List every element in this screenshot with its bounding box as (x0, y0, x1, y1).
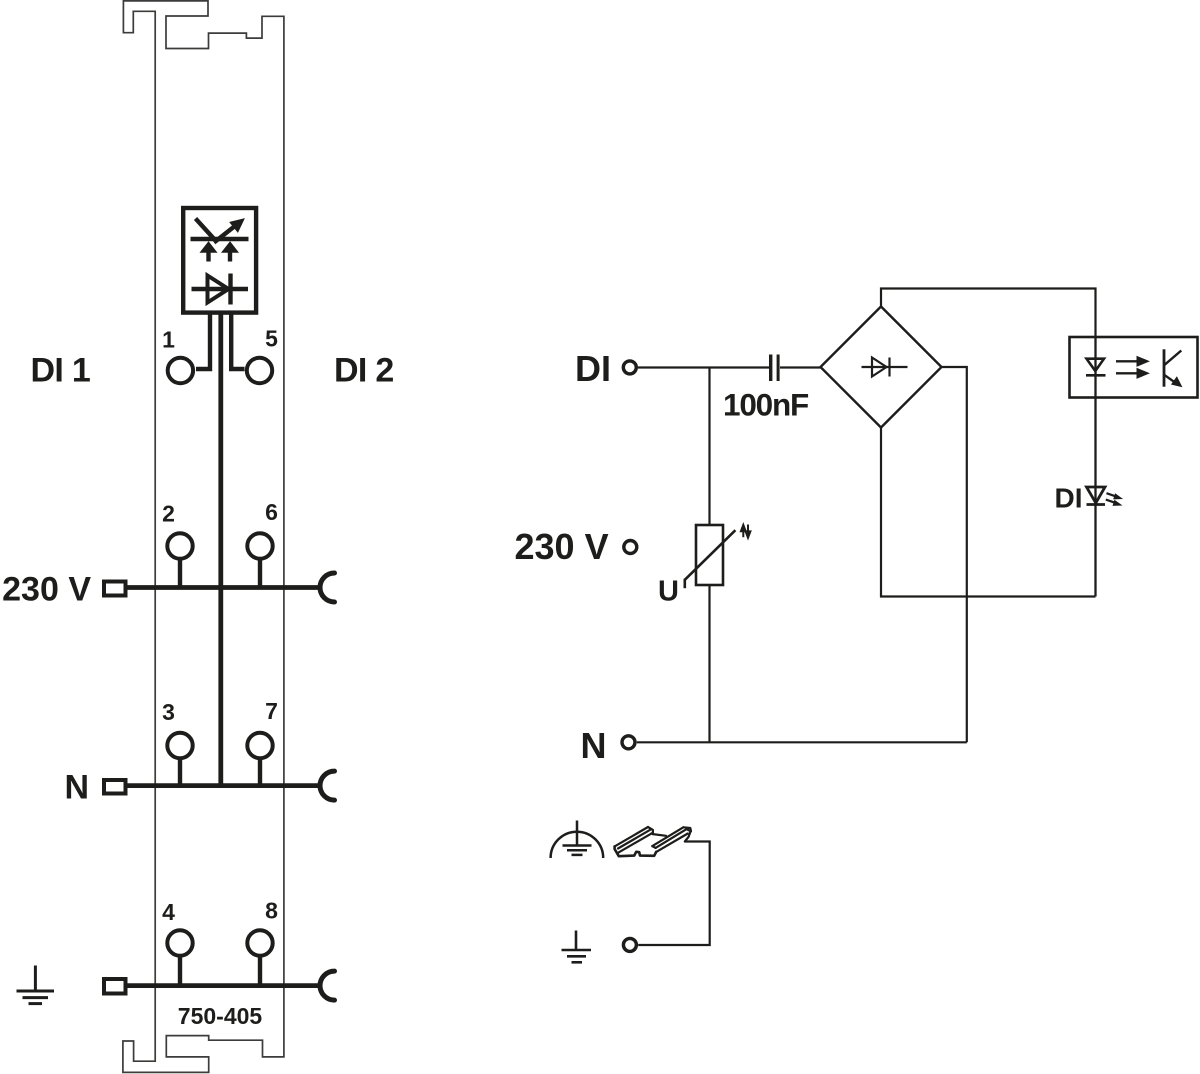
svg-text:DI 1: DI 1 (31, 352, 91, 390)
contact 3 (167, 733, 192, 786)
svg-text:DI: DI (575, 348, 611, 389)
LED indicator box (183, 208, 256, 313)
230V rail (126, 585, 319, 590)
LED cluster symbol (status indicators) (191, 219, 249, 262)
optocoupler LED (1086, 359, 1106, 376)
ground symbol left (17, 966, 55, 1004)
varistor interference marks (741, 525, 751, 538)
wire from LED box down to N rail (218, 313, 223, 786)
svg-text:5: 5 (265, 326, 278, 352)
PE power jumper terminal (104, 979, 126, 994)
terminal circle earth (623, 938, 636, 951)
varistor U (685, 525, 736, 588)
ground symbol bottom (562, 931, 592, 963)
svg-text:2: 2 (162, 501, 175, 527)
wire varistor to N wire (708, 585, 710, 742)
wire N (637, 741, 967, 743)
wire DI to capacitor (638, 366, 769, 368)
svg-text:100nF: 100nF (723, 387, 809, 423)
svg-text:6: 6 (265, 499, 278, 525)
svg-text:N: N (581, 725, 607, 766)
wire bridge top to optocoupler (881, 289, 1096, 338)
230V jumper contact socket (320, 573, 335, 602)
svg-text:1: 1 (162, 327, 175, 353)
svg-text:230 V: 230 V (515, 526, 609, 567)
svg-text:N: N (65, 769, 90, 807)
svg-text:8: 8 (265, 898, 278, 924)
svg-text:DI 2: DI 2 (334, 352, 394, 390)
diode D1 inside LED box (192, 274, 249, 305)
contact 1 (168, 358, 193, 383)
wire bridge bottom loop to LED branch (881, 428, 1096, 597)
PE rail (126, 983, 319, 988)
N rail (126, 783, 319, 788)
svg-text:230 V: 230 V (2, 571, 91, 609)
optocoupler U2 box (1070, 337, 1198, 398)
N jumper contact socket (320, 771, 335, 800)
wire bridge right corner down to N (942, 367, 967, 742)
PE dome symbol (551, 821, 604, 859)
terminal circle N (622, 736, 635, 749)
contact 5 (247, 358, 272, 383)
optocoupler phototransistor (1164, 349, 1182, 386)
svg-text:U: U (658, 576, 679, 608)
N power jumper terminal (104, 780, 126, 794)
wire DIN rail to functional earth (638, 842, 710, 946)
svg-text:3: 3 (162, 699, 175, 725)
bridge rectifier diamond (821, 307, 942, 428)
wire from LED box to contact 1 (196, 313, 210, 369)
terminal circle 230 V (624, 541, 637, 554)
DIN rail symbol (615, 827, 691, 856)
svg-text:DI: DI (1055, 483, 1083, 514)
wire from LED box to contact 5 (231, 313, 244, 369)
diode inside bridge (862, 358, 908, 377)
svg-text:4: 4 (162, 899, 175, 925)
wire capacitor to bridge rectifier (780, 366, 821, 368)
svg-text:750-405: 750-405 (178, 1003, 263, 1029)
wire junction to varistor (708, 368, 710, 526)
contact 8 (247, 930, 272, 985)
capacitor C1 100nF (771, 355, 778, 382)
wire through optocoupler (vertical) (1094, 337, 1096, 597)
PE jumper contact socket (320, 971, 335, 1000)
status LED emission arrows (1106, 493, 1122, 505)
module outline 750-405 body profile (123, 1, 284, 1073)
svg-text:7: 7 (265, 698, 278, 724)
contact 4 (167, 930, 192, 985)
230V power jumper terminal (104, 582, 126, 596)
contact 2 (167, 533, 192, 587)
optocoupler light arrows (1116, 357, 1149, 379)
contact 6 (247, 533, 272, 587)
terminal circle DI (623, 361, 636, 374)
status LED diode (1087, 487, 1106, 505)
contact 7 (247, 733, 272, 786)
